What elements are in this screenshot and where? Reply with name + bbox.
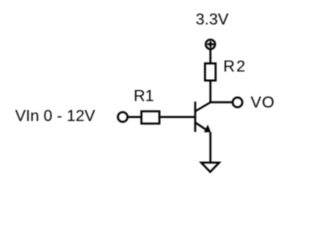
wire R2 to collector node: [209, 81, 211, 103]
resistor R2: [205, 63, 216, 80]
svg-text:VIn 0 - 12V: VIn 0 - 12V: [15, 108, 95, 125]
wire input terminal to R1: [128, 116, 142, 118]
wire emitter to ground: [209, 132, 211, 162]
transistor Q1 emitter arrowhead: [204, 125, 211, 133]
resistor R1: [141, 111, 159, 123]
wire supply to R2: [209, 50, 211, 64]
transistor Q1 collector lead: [195, 102, 210, 111]
input terminal: [118, 112, 128, 122]
output terminal VO: [233, 98, 243, 108]
wire collector node to output terminal: [210, 101, 231, 103]
transistor Q1 emitter lead: [195, 123, 208, 132]
svg-text:3.3V: 3.3V: [196, 12, 229, 29]
transistor Q1 base bar: [194, 102, 196, 132]
svg-text:R1: R1: [134, 88, 155, 105]
power supply +3.3V terminal: [206, 40, 215, 49]
ground: [201, 163, 219, 172]
wire R1 to base: [160, 116, 195, 118]
svg-text:VO: VO: [251, 94, 275, 111]
svg-text:R2: R2: [223, 59, 247, 76]
